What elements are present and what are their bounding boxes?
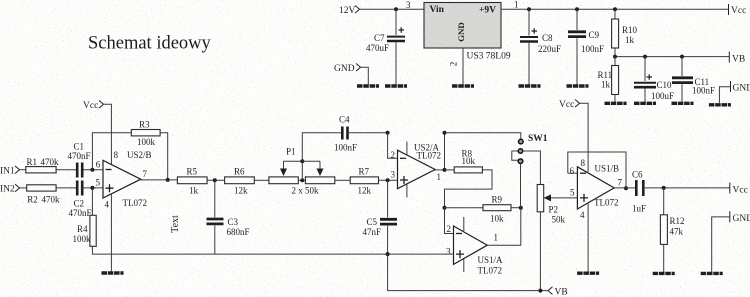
resistor R5 <box>177 167 207 196</box>
wire R9 right to node <box>511 207 521 209</box>
node between P1 sections <box>300 178 304 182</box>
capacitor C2 <box>69 181 104 219</box>
wire GND input down <box>361 67 369 85</box>
ground for right GND port <box>701 272 723 274</box>
op-amp US1/A <box>454 217 504 276</box>
node pin5 <box>90 186 94 190</box>
port VB (bottom) <box>548 287 568 297</box>
capacitor C4 <box>334 115 388 153</box>
resistor R2 <box>27 185 60 205</box>
port IN1 <box>0 166 20 177</box>
ground under R12 <box>653 272 675 274</box>
wire output to R5 <box>141 179 178 181</box>
ground under C11 <box>672 102 694 104</box>
port GND (top right) <box>731 81 750 94</box>
feedback wire R3 loop <box>92 133 167 180</box>
port 12V <box>339 6 360 17</box>
ground under C10 <box>634 102 656 104</box>
port VB (right) <box>729 52 745 65</box>
wire rail to SW1 <box>445 133 521 139</box>
ground for GND input <box>357 85 379 87</box>
capacitor C1 <box>68 142 104 178</box>
VB rail wire <box>615 56 729 58</box>
node C6 / R12 <box>662 186 666 190</box>
port IN2 <box>0 184 20 194</box>
regulator US3 78L09 <box>424 3 511 62</box>
op-amp US1/B <box>577 164 622 272</box>
node C9 <box>575 7 579 11</box>
resistor R3 <box>131 120 160 148</box>
port Vcc (US2/B supply) <box>83 101 104 112</box>
potentiometer P1 section a <box>269 177 298 184</box>
node wiper to C4 <box>300 159 304 163</box>
wire IN2 to R2 <box>20 187 27 189</box>
wire R6 to P1 <box>254 179 269 181</box>
wire US1/B output to C6 <box>614 187 635 189</box>
node R9 right <box>519 206 523 210</box>
wire R5 to R6 <box>207 179 225 181</box>
port GND (right mid) <box>730 211 750 224</box>
capacitor C11 <box>672 57 715 102</box>
wire Vcc to pin 8 <box>104 104 112 164</box>
node R9 left <box>443 206 447 210</box>
wire C4 branch left <box>302 133 341 161</box>
capacitor C8 <box>520 9 561 85</box>
wire P1 to R7 <box>335 179 350 181</box>
wire Vcc to pin 8 US1/B <box>580 103 589 172</box>
resistor R11 <box>598 57 619 102</box>
node C4 right / pin2 branch <box>386 131 390 135</box>
resistor R6 <box>225 167 255 196</box>
node C10 <box>643 55 647 59</box>
wire R2 to C2 <box>56 187 76 189</box>
wire output up to C4 rail <box>444 133 446 170</box>
ground under C8 <box>519 85 541 87</box>
wire node to R9 <box>445 207 484 209</box>
ground under regulator <box>452 85 474 87</box>
op-amp US2/A <box>398 142 442 198</box>
wire pin2 US1/A <box>445 208 454 234</box>
wire P2 bottom to VB line <box>539 212 541 291</box>
node R10 <box>613 7 617 11</box>
node R11 <box>613 55 617 59</box>
node C3 tap <box>213 178 217 182</box>
+9V rail wire <box>501 8 729 10</box>
resistor R7 <box>350 167 378 196</box>
node pin3 / C5 <box>386 178 390 182</box>
port Vcc (US1/B supply) <box>559 100 580 110</box>
wire node to pin 2 of US2/A <box>388 133 398 159</box>
ground under C9 <box>567 85 589 87</box>
port Vcc (top right) <box>729 4 747 16</box>
capacitor C5 <box>363 180 398 253</box>
ground for GND port <box>709 104 731 106</box>
wire R7 to pin3 node <box>379 179 398 181</box>
switch SW1 <box>512 134 548 164</box>
wire SW1 middle to P2 top <box>523 151 541 185</box>
resistor R12 <box>660 188 684 272</box>
ground under pin 4 US2/B <box>102 272 124 274</box>
wire US1/A output <box>487 208 521 246</box>
node rail / output riser <box>443 131 447 135</box>
node output / R8 <box>443 168 447 172</box>
ground under pin 4 US1/B <box>577 272 599 274</box>
wire between P1 sections <box>298 179 305 181</box>
P1 wiper link <box>284 160 321 162</box>
wire 12V to regulator <box>360 8 425 10</box>
capacitor C6 <box>632 170 730 214</box>
wire IN1 to R1 <box>20 169 26 171</box>
node feedback output <box>624 186 628 190</box>
capacitor C9 <box>568 9 604 85</box>
node pin6 <box>90 168 94 172</box>
wire SW1 bottom to R9 node <box>520 164 522 208</box>
VB bus line bottom <box>92 253 454 255</box>
wire R8 return loop <box>445 170 493 208</box>
resistor R10 <box>612 9 638 56</box>
op-amp US2/B <box>103 150 152 272</box>
resistor R9 <box>483 195 511 224</box>
capacitor C7 <box>366 9 405 85</box>
wire GND port to ground <box>719 87 730 103</box>
capacitor C10 <box>634 57 674 102</box>
node C5 bottom <box>386 252 390 256</box>
resistor R4 <box>73 188 97 254</box>
regulator GND lead, pin 2 <box>462 48 464 85</box>
node output US2/B <box>166 178 170 182</box>
resistor R1 <box>26 157 59 173</box>
node C8 <box>527 7 531 11</box>
node C11 <box>680 55 684 59</box>
P1 wiper a <box>280 161 287 176</box>
potentiometer P2 <box>537 185 577 225</box>
port Vcc (output right) <box>730 183 748 196</box>
wire GND port to ground <box>712 217 730 272</box>
wire wiper node down to P1 mid <box>301 161 303 180</box>
wire pin6 stub <box>568 172 578 174</box>
wire US2/A output <box>435 169 444 171</box>
wire VB drop <box>388 254 548 291</box>
node junction C7 tap <box>394 7 398 11</box>
capacitor C3 <box>207 180 250 253</box>
feedback wire US1/B <box>568 152 626 188</box>
wire R1 to C1 <box>56 169 76 171</box>
P1 wiper b <box>317 161 324 176</box>
node P2 bottom on VB <box>538 289 542 293</box>
port GND (input) <box>334 64 361 75</box>
ground under R11 <box>605 102 627 104</box>
resistor R8 <box>445 149 483 173</box>
ground under C7 <box>385 85 407 87</box>
potentiometer P1 section b <box>305 177 334 184</box>
